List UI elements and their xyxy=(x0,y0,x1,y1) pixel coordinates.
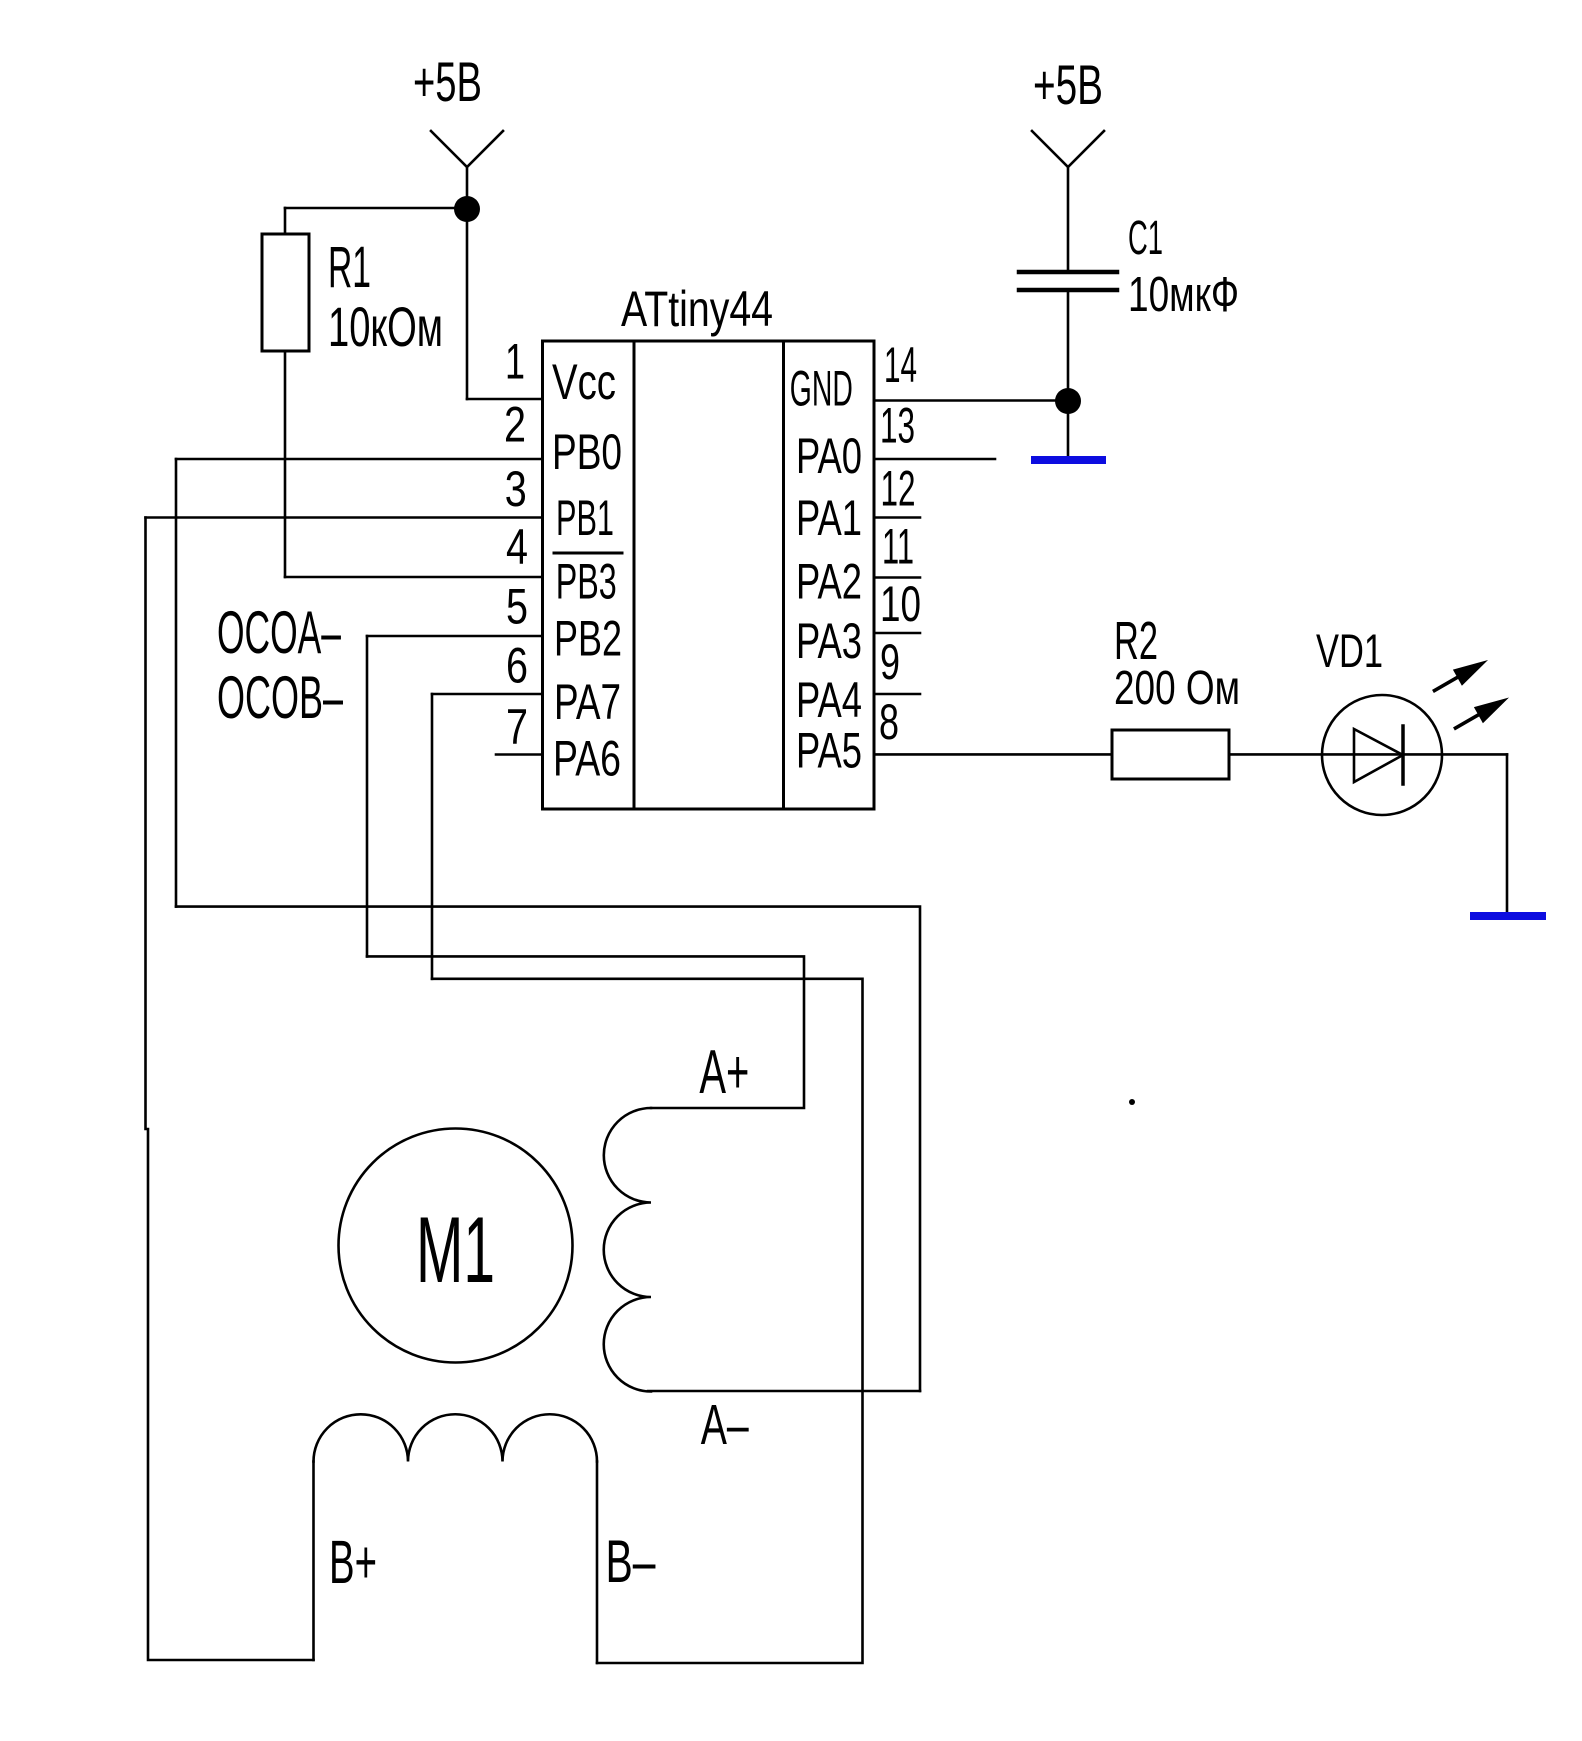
svg-text:10мкФ: 10мкФ xyxy=(1128,268,1239,322)
svg-text:PA1: PA1 xyxy=(796,490,862,546)
svg-text:+5B: +5B xyxy=(413,50,482,113)
svg-text:12: 12 xyxy=(881,460,916,516)
svg-text:5: 5 xyxy=(506,579,528,635)
svg-text:2: 2 xyxy=(504,397,526,453)
svg-text:B–: B– xyxy=(606,1528,656,1595)
svg-text:PB3: PB3 xyxy=(556,554,617,610)
svg-text:PA3: PA3 xyxy=(796,613,862,669)
svg-text:8: 8 xyxy=(879,694,899,750)
svg-text:11: 11 xyxy=(882,518,914,574)
svg-text:10: 10 xyxy=(880,576,921,632)
svg-text:Vcc: Vcc xyxy=(552,354,616,410)
svg-text:B+: B+ xyxy=(329,1528,377,1596)
svg-text:PA4: PA4 xyxy=(796,672,862,728)
svg-text:C1: C1 xyxy=(1128,212,1163,265)
svg-text:1: 1 xyxy=(505,334,525,390)
svg-text:PB0: PB0 xyxy=(552,424,622,480)
svg-text:OCOB–: OCOB– xyxy=(217,664,343,731)
svg-text:GND: GND xyxy=(790,361,853,417)
svg-text:200 Ом: 200 Ом xyxy=(1114,662,1240,715)
svg-text:R1: R1 xyxy=(328,235,371,300)
svg-text:PB2: PB2 xyxy=(554,611,622,667)
svg-text:PA6: PA6 xyxy=(553,731,621,787)
svg-text:VD1: VD1 xyxy=(1316,624,1383,677)
svg-text:ATtiny44: ATtiny44 xyxy=(621,281,773,337)
svg-text:7: 7 xyxy=(506,699,528,755)
svg-text:14: 14 xyxy=(884,337,917,393)
svg-text:10кОм: 10кОм xyxy=(328,295,443,358)
svg-text:6: 6 xyxy=(506,637,528,693)
svg-text:PB1: PB1 xyxy=(556,490,614,546)
svg-text:M1: M1 xyxy=(416,1197,495,1302)
svg-text:3: 3 xyxy=(505,461,527,517)
svg-text:9: 9 xyxy=(880,634,900,690)
svg-text:13: 13 xyxy=(880,398,915,454)
svg-text:PA0: PA0 xyxy=(796,428,862,484)
svg-text:4: 4 xyxy=(506,519,528,575)
svg-text:A–: A– xyxy=(701,1393,749,1457)
svg-text:PA2: PA2 xyxy=(796,553,862,609)
svg-text:PA5: PA5 xyxy=(796,723,862,779)
svg-text:A+: A+ xyxy=(699,1038,749,1107)
svg-text:OCOA–: OCOA– xyxy=(217,599,341,666)
svg-text:+5B: +5B xyxy=(1033,53,1103,116)
svg-text:PA7: PA7 xyxy=(554,674,621,730)
